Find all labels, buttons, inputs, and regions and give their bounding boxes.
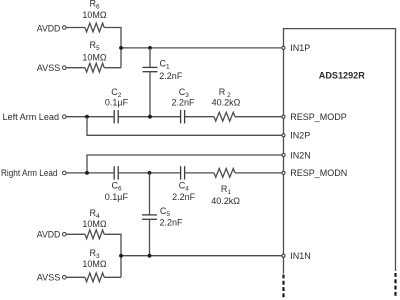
svg-text:AVDD: AVDD — [37, 230, 61, 240]
pin RESP_MODP — [282, 115, 285, 118]
node C5 top — [148, 171, 152, 175]
terminal AVSS bottom — [63, 276, 67, 280]
svg-text:ADS1292R: ADS1292R — [319, 71, 365, 82]
wire R1 to RESP_MODN — [235, 172, 284, 174]
node C1 bottom — [148, 115, 152, 119]
capacitor C3 — [181, 110, 185, 123]
svg-text:IN1P: IN1P — [290, 43, 310, 53]
wire AVSS lead to R3 — [67, 276, 86, 278]
wire bottom net to IN1N — [121, 255, 284, 257]
svg-text:2.2nF: 2.2nF — [160, 218, 184, 228]
svg-text:AVDD: AVDD — [37, 24, 61, 34]
svg-text:10MΩ: 10MΩ — [82, 259, 107, 269]
pin IN2P — [282, 134, 285, 137]
capacitor C4 — [181, 166, 185, 179]
pin IN2N — [282, 153, 285, 156]
svg-text:Right Arm Lead: Right Arm Lead — [1, 168, 58, 178]
wire AVDD lead to R6 — [67, 27, 86, 29]
IC box ADS1292R outline — [284, 29, 396, 274]
wire Left Arm Lead to C2 — [67, 116, 115, 118]
wire C1 lower — [149, 72, 151, 117]
wire R4 to junction column — [104, 234, 121, 277]
svg-text:2.2nF: 2.2nF — [159, 71, 183, 81]
wire top net to IN1P — [121, 47, 284, 49]
pin RESP_MODN — [282, 171, 285, 174]
node R5-R6 junction — [119, 46, 123, 50]
terminal AVSS top — [63, 66, 67, 70]
terminal Right Arm Lead — [63, 171, 67, 175]
svg-text:IN2N: IN2N — [290, 150, 311, 160]
wire R5 to junction column — [104, 67, 121, 69]
wire C3 to R2 — [185, 116, 214, 118]
svg-text:0.1µF: 0.1µF — [105, 192, 129, 202]
capacitor C6 — [114, 166, 118, 179]
resistor R5 — [85, 63, 104, 72]
capacitor C2 — [114, 110, 118, 123]
wire C5 upper — [149, 173, 151, 215]
svg-text:10MΩ: 10MΩ — [82, 219, 107, 229]
svg-text:0.1µF: 0.1µF — [105, 98, 129, 108]
node IN2P branch — [85, 115, 89, 119]
svg-text:40.2kΩ: 40.2kΩ — [212, 98, 241, 108]
wire C5 lower — [149, 219, 151, 255]
resistor R6 — [85, 23, 104, 32]
wire Right Arm Lead to C6 — [67, 172, 115, 174]
svg-text:AVSS: AVSS — [37, 273, 61, 283]
svg-text:10MΩ: 10MΩ — [82, 10, 107, 20]
wire C6 to C4 — [118, 172, 180, 174]
resistor R2 — [214, 112, 235, 121]
node C1 top — [148, 46, 152, 50]
wire C1 upper — [149, 48, 151, 68]
wire R2 to RESP_MODP — [235, 116, 284, 118]
resistor R4 — [85, 230, 104, 239]
resistor R1 — [214, 168, 235, 177]
dashed continuation right edge — [394, 273, 396, 297]
svg-text:10MΩ: 10MΩ — [82, 53, 107, 63]
wire R6 to junction column — [104, 28, 121, 68]
node C5 bottom — [148, 254, 152, 258]
dashed continuation left edge — [282, 275, 284, 299]
terminal AVDD top — [63, 26, 67, 30]
wire IN2P branch — [87, 117, 284, 136]
capacitor C5 — [142, 215, 157, 219]
svg-text:Left Arm Lead: Left Arm Lead — [3, 112, 60, 122]
wire C4 to R1 — [185, 172, 214, 174]
svg-text:40.2kΩ: 40.2kΩ — [211, 196, 240, 206]
svg-text:RESP_MODN: RESP_MODN — [290, 168, 347, 178]
wire AVDD lead to R4 — [67, 233, 86, 235]
pin IN1N — [282, 254, 285, 257]
svg-text:AVSS: AVSS — [37, 63, 61, 73]
svg-text:2.2nF: 2.2nF — [171, 98, 195, 108]
wire AVSS lead to R5 — [67, 67, 86, 69]
wire C2 to C3 — [118, 116, 180, 118]
svg-text:IN1N: IN1N — [290, 251, 311, 261]
capacitor C1 — [143, 67, 158, 71]
node IN2N branch — [85, 171, 89, 175]
node R3-R4 junction — [119, 254, 123, 258]
pin IN1P — [282, 46, 285, 49]
resistor R3 — [85, 273, 104, 282]
terminal AVDD bottom — [63, 233, 67, 237]
terminal Left Arm Lead — [63, 115, 67, 119]
svg-text:IN2P: IN2P — [290, 131, 310, 141]
svg-text:RESP_MODP: RESP_MODP — [290, 112, 347, 122]
svg-text:2.2nF: 2.2nF — [172, 192, 196, 202]
wire IN2N branch — [87, 155, 284, 173]
wire R3 to junction column — [104, 276, 121, 278]
